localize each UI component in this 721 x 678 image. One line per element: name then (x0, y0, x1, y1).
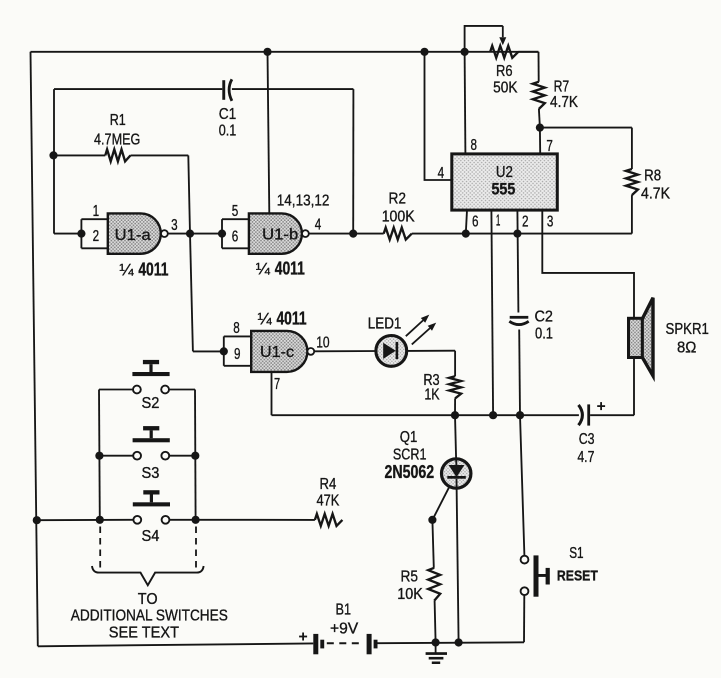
label SPKR1 (666, 321, 709, 338)
pin 10 label U1-c (316, 334, 329, 351)
op-amp gate U1-b (NAND 4011) (249, 213, 302, 253)
svg-text:0.1: 0.1 (219, 123, 237, 140)
svg-text:555: 555 (491, 181, 515, 199)
wire C1 feedback top (y=89) (54, 88, 353, 90)
svg-text:2N5062: 2N5062 (385, 462, 435, 482)
node junction R5 / ground / rail (432, 638, 440, 646)
resistor R5 (428, 520, 440, 643)
svg-text:S3: S3 (142, 465, 160, 482)
node junction SCR cathode / rail (455, 638, 463, 646)
label + (C3) (597, 402, 605, 410)
svg-text:R1: R1 (110, 112, 126, 129)
svg-text:4011: 4011 (275, 258, 305, 278)
wire bottom rail (battery loop) (38, 642, 524, 646)
wire R1 to U1-a output node (188, 155, 190, 233)
LED1 emission arrows (406, 315, 436, 345)
wire S1 to ground rail (523, 595, 525, 642)
battery B1 (313, 634, 377, 654)
svg-text:2: 2 (93, 228, 100, 245)
LED LED1 (376, 336, 407, 367)
wire U1-c input bracket (224, 336, 251, 365)
node junction U1-a output / R1 / U1-c feed (186, 230, 194, 238)
wire SCR anode (455, 415, 456, 458)
resistor R1 (54, 149, 189, 161)
svg-text:RESET: RESET (557, 568, 598, 585)
switch S3 (99, 426, 195, 460)
pin 1 label U1-a (93, 203, 100, 220)
wire R7/R8 junction to R8 top (540, 128, 632, 169)
wire U2 pin 4 to V+ rail (425, 52, 452, 180)
svg-text:100K: 100K (382, 209, 415, 226)
svg-text:S4: S4 (142, 528, 160, 545)
wire SCR gate (432, 488, 448, 520)
svg-text:+9V: +9V (330, 620, 359, 637)
label 10K (397, 586, 423, 603)
pin 4 label U2 (438, 165, 445, 182)
svg-text:6: 6 (472, 214, 479, 231)
svg-text:4.7: 4.7 (577, 449, 594, 466)
svg-text:LED1: LED1 (368, 315, 402, 332)
label 2N5062 (385, 462, 435, 482)
wire trigger rail y=415 (272, 414, 635, 416)
label C2 (534, 308, 553, 325)
svg-text:R5: R5 (400, 568, 418, 585)
svg-text:4011: 4011 (138, 259, 168, 279)
wire dashed to additional switches (left) (99, 527, 101, 571)
node junction top rail / U2 pin 8 / R6 wiper loop (461, 48, 469, 56)
resistor R4 (315, 514, 343, 526)
label U1-b (262, 227, 298, 244)
svg-text:3: 3 (171, 217, 178, 234)
pin 3 label U2 (547, 214, 554, 231)
svg-text:4011: 4011 (276, 308, 306, 328)
pin 3 label U1-a (171, 217, 178, 234)
wire U1-a output down to U1-c input (190, 234, 224, 352)
label RESET (557, 568, 598, 585)
label 1/4 4011 (U1-a) (119, 259, 168, 279)
label U1-c (260, 344, 294, 361)
label R3 (423, 372, 439, 389)
svg-text:4: 4 (315, 216, 322, 233)
label LED1 (368, 315, 402, 332)
bubble U1-c output (307, 348, 314, 355)
label SCR1 (393, 447, 427, 464)
op-amp gate U1-c (NAND 4011) (251, 331, 307, 372)
svg-text:R7: R7 (554, 78, 570, 95)
wire U2 pin 3 to speaker (542, 210, 634, 415)
svg-text:R6: R6 (496, 63, 513, 80)
svg-text:4.7MEG: 4.7MEG (94, 132, 140, 149)
potentiometer R6 (490, 46, 538, 58)
svg-text:7: 7 (546, 138, 553, 155)
label R1 (110, 112, 126, 129)
speaker SPKR1 (629, 298, 654, 376)
wire U2 pin 7 stub (539, 128, 541, 154)
svg-text:4.7K: 4.7K (641, 186, 670, 203)
label 100K (382, 209, 415, 226)
pin 8 label U2 (470, 137, 477, 154)
capacitor C2 (509, 316, 528, 325)
wire U1-b input bracket (222, 219, 249, 248)
label + (battery) (299, 633, 307, 641)
label 47K (316, 493, 339, 510)
label 1/4 4011 (U1-c) (258, 308, 307, 328)
svg-text:B1: B1 (336, 601, 352, 618)
resistor R8 (626, 169, 638, 234)
label 4.7K (R7) (550, 94, 578, 111)
svg-text:1K: 1K (424, 386, 440, 403)
wire U1-c pin 7 down to trigger rail (271, 372, 273, 415)
node junction U2 pin 1 / rail (489, 411, 497, 419)
svg-text:SEE TEXT: SEE TEXT (109, 624, 179, 641)
node junction S4 right (192, 516, 200, 524)
svg-text:U1-a: U1-a (115, 227, 151, 244)
wire U2 pin 2 / C2 column (517, 210, 520, 415)
wire U2 pin 8 to V+ rail (464, 52, 467, 154)
pin 2 label U1-a (93, 228, 100, 245)
label 14,13,12 (277, 192, 330, 209)
node junction top rail / U2 pin 4 (420, 48, 428, 56)
label 1/4 4011 (U1-b) (256, 258, 305, 278)
label R7 (554, 78, 570, 95)
svg-text:¼: ¼ (119, 260, 134, 279)
pin 7 label U2 (546, 138, 553, 155)
svg-text:U2: U2 (496, 164, 513, 181)
svg-text:2: 2 (522, 214, 529, 231)
bubble U1-b output (302, 230, 309, 237)
svg-text:50K: 50K (493, 80, 518, 97)
wire SCR cathode to ground rail (457, 479, 459, 643)
pin 9 label U1-c (234, 346, 241, 363)
svg-text:10: 10 (316, 334, 329, 351)
svg-text:6: 6 (232, 229, 239, 246)
label C3 (579, 431, 595, 448)
svg-text:9: 9 (234, 346, 241, 363)
transistor Q1 SCR (442, 459, 471, 489)
svg-text:S1: S1 (569, 545, 583, 562)
wire U2 pin 6 stub (466, 210, 467, 234)
label Q1 (400, 429, 418, 446)
pin 7 label U1-c (274, 376, 280, 393)
label R4 (320, 476, 337, 493)
wire U1-a input feed (54, 233, 81, 235)
svg-text:1: 1 (93, 203, 100, 220)
label S1 (569, 545, 583, 562)
label U2 (496, 164, 513, 181)
wire U1-b output to R2 (309, 233, 384, 235)
capacitor C1 (222, 79, 232, 101)
switch S1 RESET (521, 555, 550, 596)
node junction U1-b input bracket (218, 230, 226, 238)
wire switch left column (98, 390, 101, 520)
label 0.1 (C2) (535, 325, 553, 342)
node junction U1-c input bracket (220, 347, 228, 355)
label SEE TEXT (109, 624, 179, 641)
wire U1-a output to U1-b input (168, 233, 222, 235)
label B1 (336, 601, 352, 618)
label R8 (644, 167, 661, 184)
svg-text:C1: C1 (219, 106, 237, 123)
op-amp gate U1-a (NAND 4011) (108, 213, 161, 253)
node junction R3 / SCR anode (451, 411, 459, 419)
label 4.7 (C3) (577, 449, 594, 466)
svg-text:¼: ¼ (256, 259, 271, 278)
svg-text:4: 4 (438, 165, 445, 182)
node junction C2 / S1 / rail (516, 411, 524, 419)
node junction S4 left (96, 516, 104, 524)
svg-text:SPKR1: SPKR1 (666, 321, 709, 338)
pin 4 label U1-b (315, 216, 322, 233)
svg-text:8: 8 (470, 137, 477, 154)
node junction border / S4 rail (33, 516, 41, 524)
svg-text:¼: ¼ (258, 309, 273, 328)
wire V+ top rail (31, 51, 539, 53)
svg-text:R2: R2 (389, 190, 407, 207)
brace additional switches (92, 566, 204, 585)
resistor R2 (384, 228, 412, 240)
svg-text:1: 1 (496, 213, 501, 230)
label 0.1 (C1) (219, 123, 237, 140)
label 4.7MEG (94, 132, 140, 149)
svg-text:C2: C2 (534, 308, 553, 325)
svg-text:Q1: Q1 (400, 429, 418, 446)
svg-text:47K: 47K (316, 493, 339, 510)
node junction U1-a input bracket (77, 230, 85, 238)
svg-text:S2: S2 (142, 395, 160, 412)
label R6 (496, 63, 513, 80)
wire left border (battery + to top rail) (31, 52, 38, 647)
node junction U2 pin 2 (513, 230, 521, 238)
wire C1 right column to U1-b output (352, 89, 354, 234)
svg-text:8: 8 (233, 320, 240, 337)
label 50K (493, 80, 518, 97)
label ADDITIONAL SWITCHES (71, 608, 228, 625)
switch S2 (99, 360, 195, 394)
R6 wiper loop with arrow (465, 26, 507, 52)
node junction top rail / U1-b pins 14,13,12 (263, 48, 271, 56)
label 1K (424, 386, 440, 403)
pin 2 label U2 (522, 214, 529, 231)
node junction R7 / R8 / U2 pin 7 (536, 124, 544, 132)
ground symbol (426, 643, 447, 665)
svg-text:8Ω: 8Ω (677, 340, 696, 357)
label 8 ohm (677, 340, 696, 357)
label 555 (491, 181, 515, 199)
label R5 (400, 568, 418, 585)
label S3 (142, 465, 160, 482)
wire left input column x=54 (53, 89, 55, 234)
wire S1 top to trigger rail (520, 415, 524, 555)
IC U2 555 (452, 154, 558, 210)
wire U1-b unused pins 14,13,12 to V+ rail (268, 52, 270, 214)
pin 6 label U1-b (232, 229, 239, 246)
node junction U2 pin 6 (462, 230, 470, 238)
svg-text:U1-c: U1-c (260, 344, 294, 361)
wire U1-c output to LED1 to R3 (314, 350, 455, 353)
bubble U1-a output (161, 230, 168, 237)
wire U1-a input bracket (81, 219, 107, 248)
node junction R4 / SCR gate / R5 (428, 516, 436, 524)
svg-text:7: 7 (274, 376, 280, 393)
svg-text:3: 3 (547, 214, 554, 231)
resistor R3 (449, 351, 461, 416)
pin 6 label U2 (472, 214, 479, 231)
svg-text:R4: R4 (320, 476, 337, 493)
svg-text:C3: C3 (579, 431, 595, 448)
label TO (138, 591, 158, 608)
wire dashed to additional switches (right) (195, 527, 197, 571)
label 4.7K (R8) (641, 186, 670, 203)
svg-text:0.1: 0.1 (535, 325, 553, 342)
svg-text:TO: TO (138, 591, 158, 608)
node junction S3 left (95, 452, 103, 460)
resistor R7 (533, 52, 545, 128)
svg-text:ADDITIONAL SWITCHES: ADDITIONAL SWITCHES (71, 608, 228, 625)
node junction R1 / input column (49, 151, 57, 159)
label S2 (142, 395, 160, 412)
wire R2 to pins 6,2 and R8 bottom (412, 233, 632, 235)
pin 8 label U1-c (233, 320, 240, 337)
node junction S3 right (191, 452, 199, 460)
svg-text:10K: 10K (397, 586, 423, 603)
capacitor C3 (579, 404, 591, 425)
label U1-a (115, 227, 151, 244)
label C1 (219, 106, 237, 123)
pin 5 label U1-b (232, 203, 239, 220)
svg-text:14,13,12: 14,13,12 (277, 192, 330, 209)
label R2 (389, 190, 407, 207)
svg-text:U1-b: U1-b (262, 227, 298, 244)
svg-text:R8: R8 (644, 167, 661, 184)
node junction U1-b output / C1 column (349, 230, 357, 238)
wire switch right column (194, 390, 197, 520)
wire U2 pin 1 to trigger rail (491, 210, 493, 415)
switch S4 (37, 490, 315, 523)
svg-text:5: 5 (232, 203, 239, 220)
pin 1 label U2 (496, 213, 501, 230)
label +9V (330, 620, 359, 637)
svg-text:4.7K: 4.7K (550, 94, 578, 111)
label S4 (142, 528, 160, 545)
